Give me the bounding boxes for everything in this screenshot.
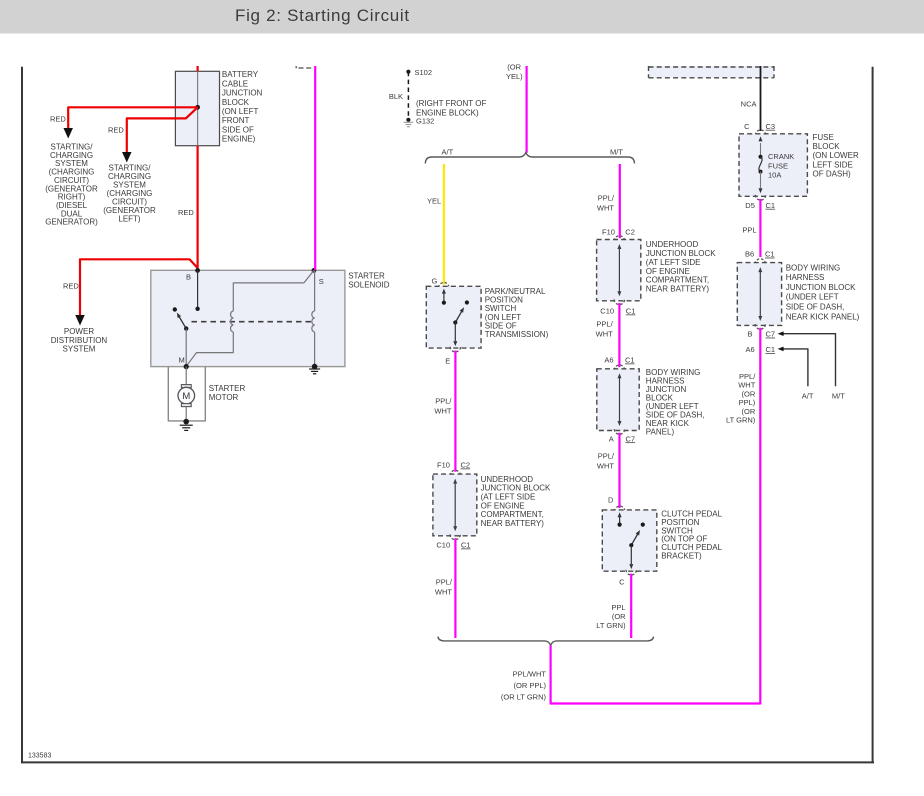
- connector C arc: [626, 570, 636, 575]
- svg-text:C1: C1: [461, 541, 471, 550]
- battery cable junction block: [175, 71, 219, 145]
- svg-text:C10: C10: [436, 541, 450, 550]
- svg-text:M: M: [179, 356, 185, 365]
- connector arc C1: [450, 534, 460, 539]
- svg-text:(ON LOWER: (ON LOWER: [813, 151, 859, 160]
- brace merge bottom: [438, 637, 654, 646]
- svg-text:BLOCK: BLOCK: [813, 142, 841, 151]
- svg-text:10A: 10A: [768, 171, 781, 180]
- clutch pedal position switch box: [602, 510, 657, 571]
- svg-text:PPL/: PPL/: [739, 372, 756, 381]
- svg-text:PPL/: PPL/: [436, 578, 453, 587]
- arrow C7 from M/T: [781, 334, 836, 387]
- node B: [195, 268, 200, 273]
- wire PPL/WHT M/T from brace: [619, 164, 621, 238]
- arrow C1 from A/T: [781, 349, 808, 386]
- svg-text:PPL/WHT: PPL/WHT: [513, 669, 547, 678]
- svg-text:CRANK: CRANK: [768, 152, 794, 161]
- svg-text:(OR: (OR: [742, 389, 756, 398]
- svg-text:YEL): YEL): [506, 72, 523, 81]
- svg-text:C2: C2: [625, 227, 635, 236]
- node junction in battery block: [195, 105, 200, 110]
- svg-text:WHT: WHT: [435, 588, 452, 597]
- svg-text:PPL: PPL: [742, 226, 756, 235]
- clutch switch blade: [641, 523, 645, 527]
- svg-text:YEL: YEL: [427, 197, 441, 206]
- connector arc C3: [755, 130, 765, 135]
- svg-text:C1: C1: [766, 201, 776, 210]
- svg-text:PANEL): PANEL): [646, 427, 675, 436]
- clutch switch exit arrow: [630, 545, 632, 564]
- svg-text:(AT LEFT SIDE: (AT LEFT SIDE: [646, 258, 701, 267]
- svg-text:C1: C1: [626, 307, 636, 316]
- fuse entry arrow: [760, 143, 762, 157]
- svg-text:S102: S102: [415, 68, 433, 77]
- wire PPL/WHT from E: [454, 351, 456, 472]
- svg-text:G: G: [432, 276, 438, 285]
- ground S coil: [312, 364, 318, 370]
- svg-text:POWER: POWER: [64, 327, 94, 336]
- svg-text:RED: RED: [50, 115, 66, 124]
- header bar: [0, 0, 924, 34]
- svg-text:D5: D5: [745, 201, 755, 210]
- svg-text:C1: C1: [766, 345, 776, 354]
- wire PPL/WHT right long: [759, 328, 761, 705]
- svg-text:SIDE OF DASH,: SIDE OF DASH,: [786, 303, 845, 312]
- svg-text:(RIGHT FRONT OF: (RIGHT FRONT OF: [416, 99, 486, 108]
- svg-text:C3: C3: [766, 122, 776, 131]
- starter motor symbol: [181, 385, 191, 388]
- svg-text:(ON LEFT: (ON LEFT: [222, 107, 259, 116]
- connector arc: [614, 429, 624, 434]
- park/neutral switch exit arrow: [454, 323, 456, 342]
- park/neutral switch blade: [465, 300, 469, 304]
- svg-text:GENERATOR): GENERATOR): [45, 218, 98, 227]
- body wiring harness junction block (right): [737, 263, 781, 326]
- clipped dashed box top right: [649, 66, 775, 78]
- svg-text:WHT: WHT: [434, 406, 451, 415]
- diagram bottom border: [21, 761, 874, 763]
- wire B down: [197, 270, 199, 308]
- svg-text:A/T: A/T: [442, 147, 454, 156]
- park/neutral switch entry arrow: [443, 293, 445, 303]
- svg-text:PPL/: PPL/: [598, 452, 615, 461]
- svg-text:B: B: [747, 330, 752, 339]
- svg-text:C7: C7: [626, 434, 636, 443]
- wire PPL (OR YEL) from top: [525, 66, 527, 153]
- svg-text:PPL/: PPL/: [596, 319, 613, 328]
- svg-text:PPL/: PPL/: [598, 193, 615, 202]
- connector arc: [614, 299, 624, 304]
- svg-text:HARNESS: HARNESS: [786, 273, 825, 282]
- svg-text:UNDERHOOD: UNDERHOOD: [481, 475, 534, 484]
- solenoid switch blade: [179, 317, 186, 329]
- svg-text:COMPARTMENT,: COMPARTMENT,: [481, 510, 544, 519]
- coil 2 (S coil): [314, 270, 316, 311]
- wire red branch to generator left: [127, 107, 198, 152]
- svg-text:C1: C1: [625, 356, 635, 365]
- svg-text:A6: A6: [604, 356, 613, 365]
- svg-text:PPL): PPL): [739, 398, 756, 407]
- svg-text:A6: A6: [746, 345, 755, 354]
- svg-text:C: C: [619, 578, 625, 587]
- svg-text:LEFT SIDE: LEFT SIDE: [813, 160, 853, 169]
- starter solenoid box: [151, 270, 345, 366]
- svg-text:PPL/: PPL/: [435, 396, 452, 405]
- svg-text:NEAR BATTERY): NEAR BATTERY): [481, 519, 545, 528]
- wire S to coil1: [233, 270, 314, 311]
- svg-text:JUNCTION BLOCK: JUNCTION BLOCK: [646, 249, 716, 258]
- svg-text:NEAR KICK PANEL): NEAR KICK PANEL): [786, 312, 860, 321]
- svg-text:CABLE: CABLE: [222, 79, 248, 88]
- crank fuse symbol: [759, 155, 763, 159]
- svg-text:B: B: [186, 273, 191, 282]
- svg-text:WHT: WHT: [738, 381, 755, 390]
- park/neutral position switch box: [426, 286, 481, 348]
- connector arc: [614, 236, 624, 241]
- svg-text:M/T: M/T: [610, 147, 623, 156]
- wire coil1 to M: [186, 332, 233, 366]
- dashed actuation line: [192, 321, 314, 323]
- svg-text:(UNDER LEFT: (UNDER LEFT: [786, 293, 839, 302]
- svg-text:TRANSMISSION): TRANSMISSION): [485, 330, 549, 339]
- brace A/T M/T split: [425, 152, 634, 163]
- starter motor enclosure: [168, 367, 205, 421]
- svg-text:(OR PPL): (OR PPL): [513, 681, 546, 690]
- svg-text:F10: F10: [602, 227, 615, 236]
- svg-text:COMPARTMENT,: COMPARTMENT,: [646, 276, 709, 285]
- svg-text:STARTER: STARTER: [348, 272, 385, 281]
- svg-text:JUNCTION BLOCK: JUNCTION BLOCK: [481, 484, 551, 493]
- svg-text:PPL: PPL: [611, 603, 625, 612]
- svg-text:E: E: [445, 356, 450, 365]
- wire BLK S102 to G132: [407, 72, 409, 120]
- svg-text:C1: C1: [765, 250, 775, 259]
- connector D arc: [615, 506, 625, 511]
- wire PPL (OR LT GRN): [630, 574, 632, 638]
- svg-text:FRONT: FRONT: [222, 116, 250, 125]
- connector arc C2: [450, 470, 460, 475]
- underhood junction block A/T: [433, 474, 477, 536]
- wire M to motor: [185, 367, 187, 385]
- svg-text:133583: 133583: [28, 753, 51, 760]
- node M: [184, 364, 189, 369]
- svg-text:A/T: A/T: [802, 392, 814, 401]
- svg-text:M: M: [182, 391, 190, 402]
- svg-text:G132: G132: [416, 117, 434, 126]
- wire PPL: [759, 199, 761, 257]
- svg-text:A: A: [609, 434, 614, 443]
- svg-text:(OR: (OR: [742, 407, 756, 416]
- diagram right border: [872, 67, 874, 764]
- svg-text:WHT: WHT: [597, 203, 614, 212]
- wire motor to ground: [185, 407, 187, 422]
- svg-text:NCA: NCA: [741, 100, 757, 109]
- connector arc B6: [755, 259, 765, 264]
- wire PPL/WHT: [618, 303, 620, 367]
- svg-text:NEAR BATTERY): NEAR BATTERY): [646, 284, 710, 293]
- wire PPL/WHT to bottom brace: [454, 538, 456, 638]
- svg-text:MOTOR: MOTOR: [209, 393, 239, 402]
- svg-text:Fig 2: Starting Circuit: Fig 2: Starting Circuit: [235, 6, 410, 25]
- clutch switch entry arrow: [619, 516, 621, 525]
- svg-text:WHT: WHT: [596, 329, 613, 338]
- svg-text:OF ENGINE: OF ENGINE: [481, 501, 525, 510]
- wire PPL/WHT: [618, 433, 620, 508]
- wire YEL: [443, 164, 445, 285]
- svg-text:BLOCK: BLOCK: [222, 98, 250, 107]
- fuse exit arrow: [760, 172, 762, 188]
- svg-text:FUSE: FUSE: [813, 133, 834, 142]
- coil 1: [231, 311, 234, 332]
- wire red branch to generator right: [68, 107, 197, 128]
- connector arc B: [755, 324, 765, 329]
- wire NCA black: [760, 66, 762, 131]
- svg-text:DISTRIBUTION: DISTRIBUTION: [51, 336, 108, 345]
- svg-text:BLK: BLK: [389, 92, 403, 101]
- wire blade to M: [185, 329, 187, 367]
- svg-text:(OR LT GRN): (OR LT GRN): [501, 693, 547, 702]
- svg-text:UNDERHOOD: UNDERHOOD: [646, 240, 699, 249]
- bus line inside battery junction block: [197, 71, 199, 145]
- svg-text:BODY WIRING: BODY WIRING: [786, 263, 841, 272]
- connector arc D5: [755, 195, 765, 200]
- svg-text:ENGINE): ENGINE): [222, 135, 256, 144]
- svg-text:D: D: [608, 495, 614, 504]
- wire red stub above battery block: [197, 66, 199, 71]
- clipped dashed box corner top-left: [295, 66, 297, 68]
- svg-text:M/T: M/T: [832, 392, 845, 401]
- svg-text:C2: C2: [461, 461, 471, 470]
- ground G132: [406, 118, 410, 122]
- svg-text:(AT LEFT SIDE: (AT LEFT SIDE: [481, 493, 536, 502]
- svg-text:LEFT): LEFT): [118, 215, 141, 224]
- svg-text:S: S: [319, 277, 324, 286]
- connector arc: [614, 365, 624, 370]
- solenoid switch contact: [173, 307, 177, 311]
- connector E arc: [450, 347, 460, 352]
- svg-text:LT GRN): LT GRN): [726, 416, 756, 425]
- svg-text:LT GRN): LT GRN): [596, 621, 626, 630]
- svg-text:C: C: [744, 122, 750, 131]
- diagram left border: [21, 67, 23, 764]
- svg-text:WHT: WHT: [597, 462, 614, 471]
- svg-text:SYSTEM: SYSTEM: [63, 345, 96, 354]
- svg-text:SOLENOID: SOLENOID: [348, 280, 390, 289]
- svg-text:F10: F10: [437, 461, 450, 470]
- svg-text:RED: RED: [108, 126, 124, 135]
- svg-text:RED: RED: [178, 208, 194, 217]
- svg-text:JUNCTION: JUNCTION: [222, 89, 263, 98]
- svg-text:C7: C7: [766, 330, 776, 339]
- wire merged PPL/WHT: [551, 646, 760, 704]
- svg-text:RED: RED: [63, 282, 79, 291]
- connector G arc: [439, 283, 449, 288]
- svg-text:SIDE OF: SIDE OF: [222, 125, 254, 134]
- svg-text:FUSE: FUSE: [768, 161, 788, 170]
- svg-text:B6: B6: [745, 250, 754, 259]
- node S: [312, 268, 317, 273]
- svg-text:STARTER: STARTER: [209, 384, 246, 393]
- svg-text:JUNCTION BLOCK: JUNCTION BLOCK: [786, 283, 856, 292]
- svg-text:(OR: (OR: [507, 63, 521, 72]
- wire PPL to S terminal: [314, 66, 316, 270]
- svg-text:BRACKET): BRACKET): [661, 552, 702, 561]
- ground starter motor: [183, 419, 189, 425]
- wire red battery to solenoid B: [197, 146, 199, 271]
- body wiring harness junction block (middle): [597, 369, 639, 431]
- svg-text:C10: C10: [600, 307, 614, 316]
- svg-text:OF ENGINE: OF ENGINE: [646, 267, 690, 276]
- fuse block box: [739, 134, 807, 197]
- node S102: [406, 70, 410, 74]
- wire red branch to power distribution: [80, 259, 198, 315]
- svg-text:BATTERY: BATTERY: [222, 70, 259, 79]
- svg-text:OF DASH): OF DASH): [813, 170, 852, 179]
- underhood junction block M/T: [597, 240, 641, 301]
- svg-text:(OR: (OR: [612, 612, 626, 621]
